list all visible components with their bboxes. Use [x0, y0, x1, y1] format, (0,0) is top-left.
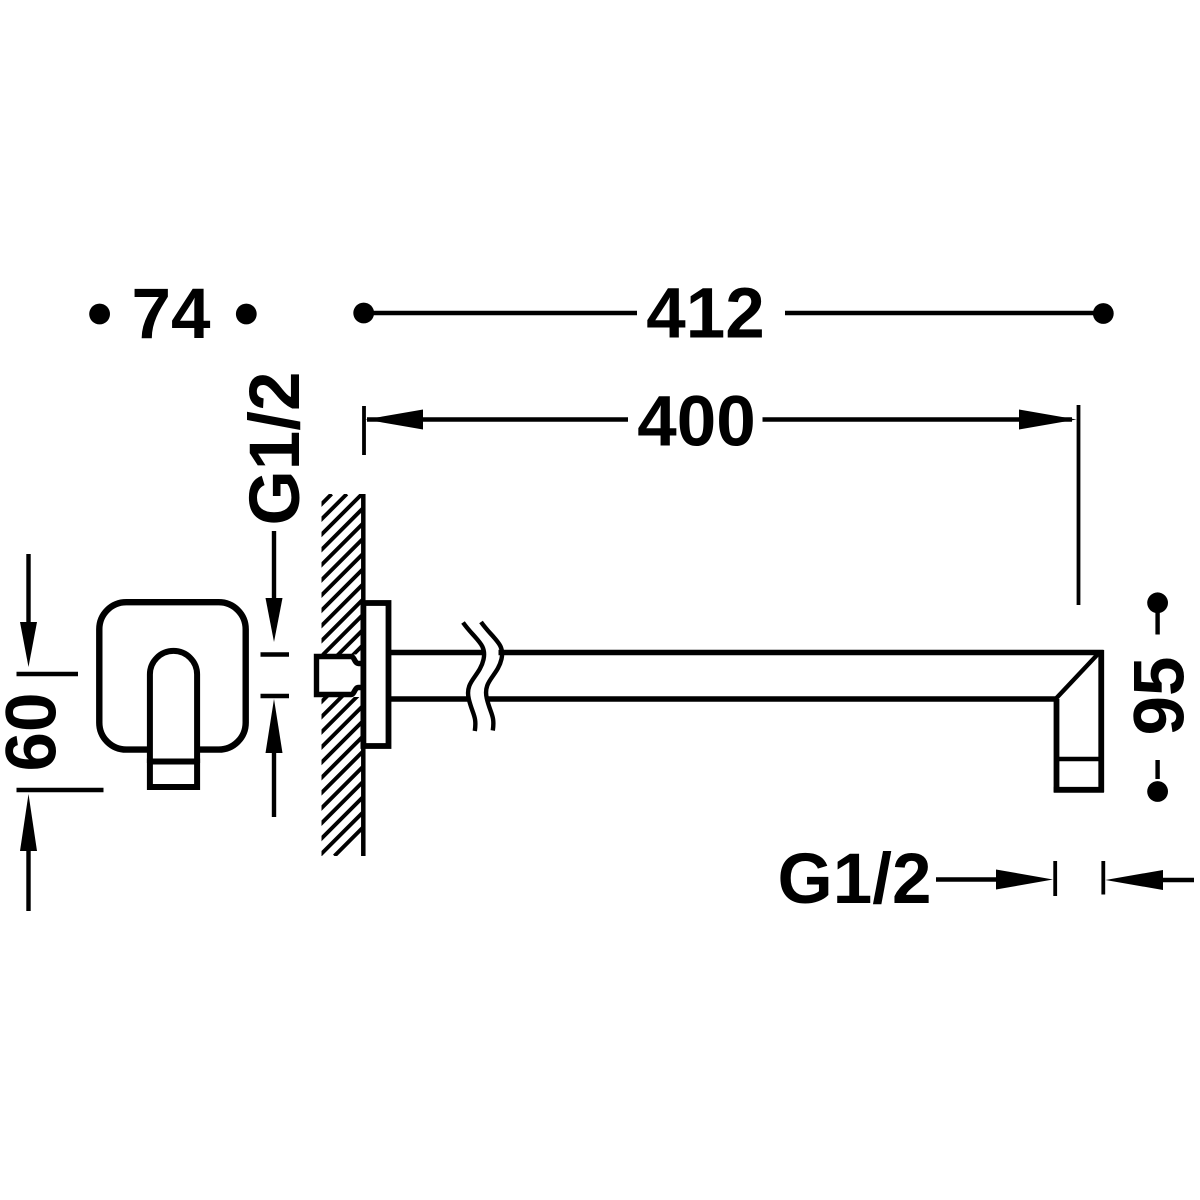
- 400 extension line right: [1077, 405, 1081, 605]
- connector fitting outline: [317, 657, 364, 695]
- front view arm end cap: [150, 762, 197, 788]
- arm tube bottom edge left segment: [391, 696, 468, 701]
- G1/2 dimension top tick: [261, 652, 290, 656]
- 412 dimension line left segment: [364, 311, 637, 315]
- front view arm tube (stadium): [150, 651, 197, 763]
- G1/2 dimension bottom tick: [261, 694, 290, 698]
- arm bend miter line: [1056, 652, 1100, 699]
- G1/2 dimension up arrow line: [272, 753, 276, 817]
- 60 dimension up arrow line: [26, 851, 30, 911]
- bottom G1/2 dimension line: [936, 877, 1000, 881]
- G1/2 dimension down arrowhead: [266, 598, 283, 642]
- dimension dot left of 74: [89, 304, 110, 325]
- bottom G1/2 right-pointing arrowhead: [996, 870, 1053, 890]
- drop nut divider line: [1057, 757, 1102, 761]
- 95 dimension bottom stub line: [1155, 760, 1159, 779]
- wall surface line: [361, 494, 366, 856]
- svg-text:74: 74: [132, 275, 211, 354]
- bottom G1/2 arrow tail line: [1163, 878, 1194, 882]
- svg-text:60: 60: [0, 693, 72, 772]
- arm tube bottom edge right segment: [487, 696, 1057, 701]
- 95 dimension top dot: [1147, 592, 1168, 613]
- svg-text:400: 400: [637, 383, 755, 462]
- side view flange: [363, 603, 388, 746]
- 400 extension line left: [362, 406, 366, 455]
- 412 dimension line right segment: [785, 311, 1103, 315]
- arm tube top edge left segment: [391, 650, 483, 655]
- 400 left arrowhead: [366, 410, 424, 430]
- connector fitting white fill: [314, 655, 363, 698]
- 60 dimension top extension tick: [17, 672, 79, 676]
- arm right outer edge: [1098, 650, 1104, 792]
- dimension dot right of 74: [236, 304, 257, 325]
- dimension dot left end of 412: [353, 303, 374, 324]
- 400 dimension line left segment: [367, 417, 628, 421]
- 400 dimension line right segment: [763, 417, 1073, 421]
- svg-text:95: 95: [1120, 657, 1199, 736]
- svg-text:G1/2: G1/2: [236, 372, 315, 526]
- 60 dimension bottom extension tick: [17, 788, 104, 792]
- drop bottom edge: [1054, 787, 1104, 793]
- drop left edge: [1054, 699, 1060, 792]
- G1/2 dimension up arrowhead: [266, 699, 283, 753]
- front view wall plate: [99, 602, 245, 749]
- G1/2 dimension down arrow line: [272, 531, 276, 600]
- arm tube top edge right segment: [499, 650, 1104, 655]
- svg-text:412: 412: [646, 275, 764, 354]
- wall hatching: [0, 494, 696, 856]
- 60 dimension up arrowhead: [20, 794, 37, 851]
- 60 dimension down arrow line: [26, 554, 30, 622]
- bottom G1/2 tick at drop left edge: [1053, 861, 1057, 896]
- svg-text:G1/2: G1/2: [778, 840, 932, 919]
- bottom G1/2 tick at drop right edge: [1101, 861, 1105, 895]
- 95 dimension top stub line: [1155, 613, 1159, 635]
- 60 dimension down arrowhead: [20, 622, 37, 667]
- 400 right arrowhead: [1019, 410, 1077, 430]
- bottom G1/2 left-pointing arrowhead: [1105, 870, 1163, 890]
- dimension dot right end of 412: [1093, 303, 1114, 324]
- break squiggle left: [463, 623, 484, 732]
- 95 dimension bottom dot: [1147, 781, 1168, 802]
- break squiggle right: [481, 622, 502, 731]
